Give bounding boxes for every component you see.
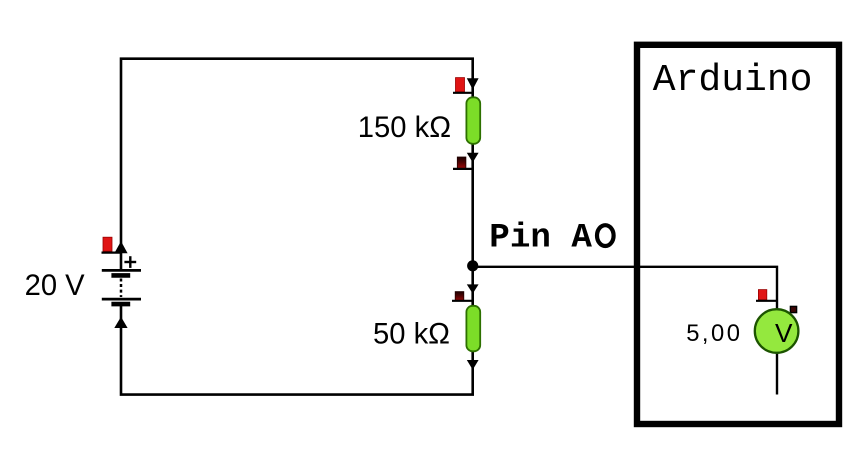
svg-text:Arduino: Arduino — [653, 59, 813, 102]
svg-text:20 V: 20 V — [25, 270, 86, 302]
resistor R1 150k — [466, 97, 480, 144]
wire: main loop (battery left, top, right resistor branch, bottom) — [121, 59, 473, 395]
resistor R2 50k — [466, 306, 480, 352]
svg-text:150 kΩ: 150 kΩ — [358, 112, 451, 144]
battery V1 probe flag (red) — [102, 237, 122, 252]
probe flag above voltmeter (red) — [756, 290, 777, 301]
current arrow above R1 (down) — [467, 78, 479, 89]
svg-text:5,00: 5,00 — [686, 320, 742, 347]
node A0 junction dot — [467, 260, 478, 271]
voltmeter M1 body — [755, 309, 799, 353]
svg-text:V: V — [775, 318, 793, 348]
current arrow below node (down) — [467, 284, 479, 293]
probe square right of voltmeter (dark) — [790, 306, 796, 312]
wire: Pin A0 node to Arduino voltmeter — [473, 267, 777, 310]
wire: voltmeter bottom stub — [776, 353, 778, 395]
current arrow below R1 (down) — [467, 153, 479, 163]
svg-text:50 kΩ: 50 kΩ — [373, 319, 450, 351]
battery V1 plus sign — [124, 256, 136, 268]
battery V1 current arrow (up, above plus) — [114, 241, 127, 253]
probe flag above R2 (dark) — [452, 292, 473, 301]
battery V1 plates — [102, 270, 141, 304]
current arrow below R2 (down) — [467, 360, 479, 370]
probe flag below R1 (dark) — [453, 157, 473, 169]
svg-text:Pin A: Pin A — [489, 220, 592, 258]
probe flag above R1 (red) — [453, 78, 473, 93]
battery V1 current arrow (up, bottom wire) — [114, 317, 127, 328]
Arduino box (thick border) — [637, 45, 839, 424]
